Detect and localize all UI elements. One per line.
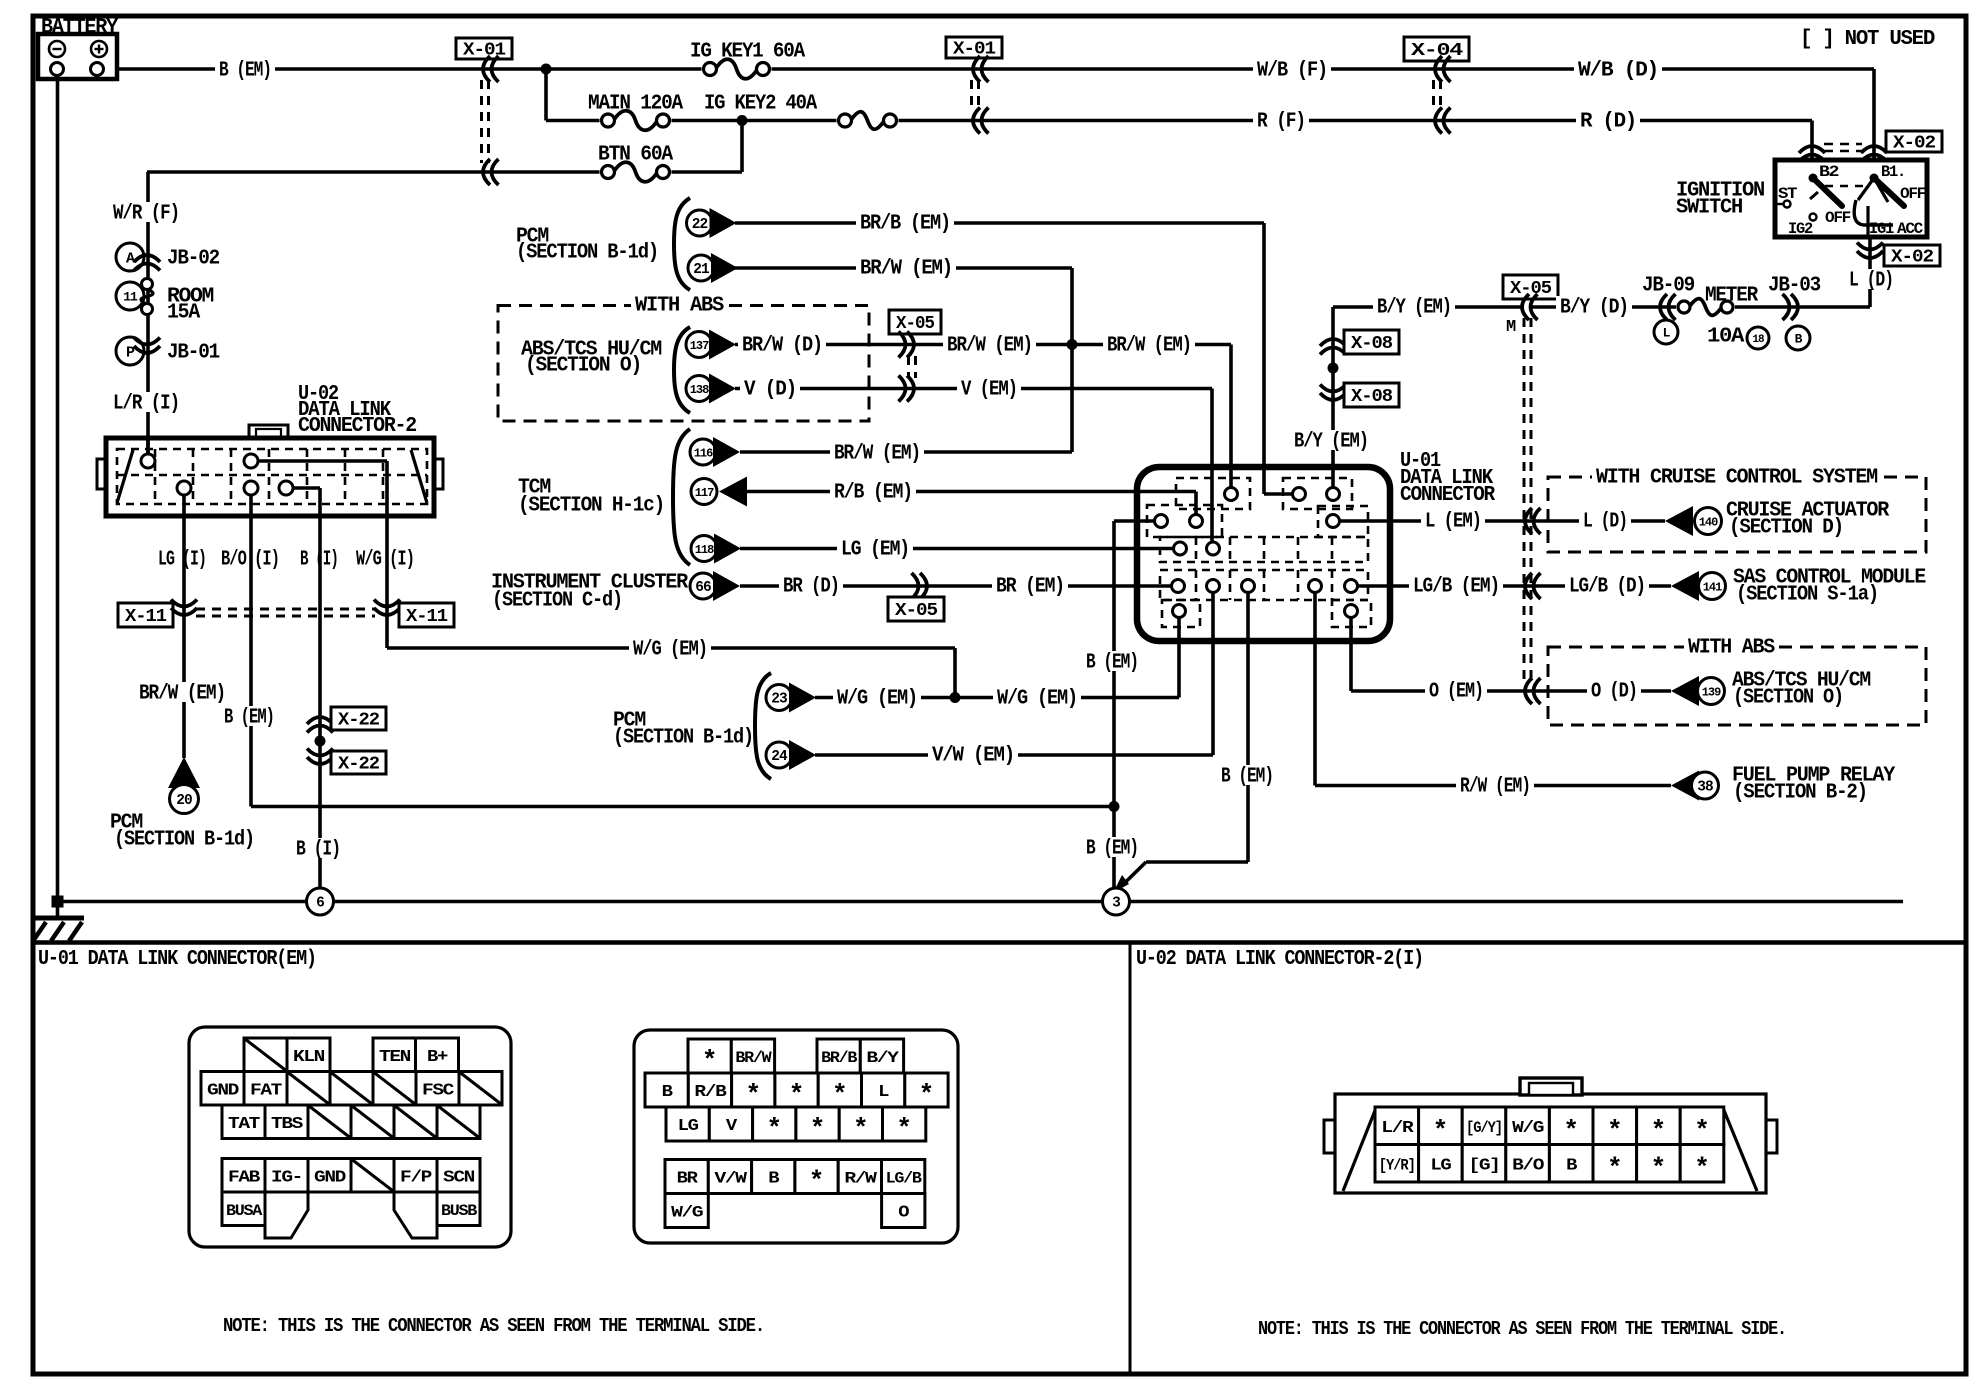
svg-text:B: B	[1566, 1156, 1577, 1175]
svg-text:(SECTION B-1d): (SECTION B-1d)	[516, 242, 658, 265]
svg-text:U-01 DATA LINK CONNECTOR(EM): U-01 DATA LINK CONNECTOR(EM)	[38, 948, 316, 971]
svg-text:JB-02: JB-02	[167, 248, 220, 271]
svg-text:*: *	[1694, 1153, 1710, 1183]
svg-text:(SECTION B-1d): (SECTION B-1d)	[114, 829, 254, 852]
svg-text:66: 66	[695, 580, 711, 596]
svg-text:WITH CRUISE CONTROL SYSTEM: WITH CRUISE CONTROL SYSTEM	[1596, 467, 1878, 490]
svg-text:X-05: X-05	[1510, 279, 1551, 299]
svg-text:B (I): B (I)	[296, 839, 340, 862]
svg-text:X-05: X-05	[896, 314, 934, 334]
svg-text:OFF: OFF	[1900, 185, 1926, 203]
svg-text:3: 3	[1112, 896, 1120, 912]
svg-text:*: *	[853, 1114, 869, 1144]
svg-text:B/Y (D): B/Y (D)	[1560, 297, 1628, 320]
svg-text:B/O: B/O	[1512, 1156, 1544, 1175]
svg-text:B+: B+	[427, 1048, 448, 1067]
svg-text:*: *	[766, 1114, 782, 1144]
svg-text:W/G (EM): W/G (EM)	[837, 688, 917, 711]
svg-text:X-04: X-04	[1411, 41, 1464, 61]
svg-text:W/G: W/G	[671, 1204, 703, 1222]
svg-text:O: O	[898, 1204, 909, 1223]
svg-text:W/B (D): W/B (D)	[1578, 60, 1658, 83]
svg-text:CONNECTOR-2: CONNECTOR-2	[298, 415, 417, 438]
svg-text:TAT: TAT	[228, 1115, 260, 1134]
svg-text:V/W (EM): V/W (EM)	[932, 745, 1014, 768]
svg-text:KLN: KLN	[293, 1048, 325, 1067]
svg-text:LG (EM): LG (EM)	[841, 539, 909, 562]
svg-text:18: 18	[1752, 334, 1765, 346]
svg-text:LG/B: LG/B	[886, 1170, 922, 1188]
svg-text:(SECTION O): (SECTION O)	[525, 355, 641, 378]
svg-text:OFF: OFF	[1825, 209, 1851, 227]
svg-text:L (D): L (D)	[1583, 511, 1627, 534]
svg-text:X-22: X-22	[338, 755, 379, 775]
svg-text:B: B	[1795, 332, 1803, 347]
svg-text:TEN: TEN	[379, 1048, 411, 1067]
svg-text:139: 139	[1702, 685, 1721, 699]
svg-text:B (EM): B (EM)	[1221, 766, 1273, 789]
svg-text:BR (D): BR (D)	[783, 576, 839, 599]
svg-text:*: *	[1651, 1153, 1667, 1183]
svg-text:BR/B: BR/B	[821, 1049, 857, 1067]
svg-text:BR: BR	[677, 1170, 699, 1189]
svg-text:*: *	[1563, 1116, 1579, 1146]
svg-text:WITH ABS: WITH ABS	[1688, 637, 1775, 660]
svg-text:38: 38	[1697, 780, 1713, 796]
svg-text:(SECTION S-1a): (SECTION S-1a)	[1736, 584, 1878, 607]
svg-text:B: B	[768, 1170, 779, 1189]
svg-text:22: 22	[692, 217, 708, 233]
svg-text:NOTE: THIS IS THE CONNECTOR AS: NOTE: THIS IS THE CONNECTOR AS SEEN FROM…	[1258, 1318, 1786, 1340]
svg-text:[Y/R]: [Y/R]	[1379, 1156, 1415, 1174]
svg-text:LG/B (D): LG/B (D)	[1569, 576, 1645, 599]
svg-text:W/G (EM): W/G (EM)	[997, 688, 1077, 711]
svg-text:B/Y (EM): B/Y (EM)	[1294, 431, 1368, 454]
svg-text:*: *	[1651, 1116, 1667, 1146]
svg-text:[G/Y]: [G/Y]	[1466, 1119, 1502, 1137]
svg-text:X-02: X-02	[1891, 248, 1933, 268]
svg-text:FSC: FSC	[422, 1081, 454, 1100]
svg-text:FAB: FAB	[228, 1168, 260, 1187]
svg-text:W/R (F): W/R (F)	[113, 203, 179, 226]
svg-text:F/P: F/P	[400, 1168, 432, 1187]
svg-text:B2: B2	[1819, 163, 1839, 181]
svg-text:X-22: X-22	[338, 711, 379, 731]
svg-text:*: *	[1607, 1153, 1623, 1183]
svg-text:L: L	[1663, 326, 1671, 341]
svg-text:138: 138	[690, 383, 709, 397]
svg-text:B (EM): B (EM)	[219, 60, 271, 83]
svg-text:6: 6	[316, 896, 324, 912]
svg-text:10A: 10A	[1707, 326, 1745, 349]
svg-text:W/B (F): W/B (F)	[1257, 60, 1327, 83]
svg-text:BR/W (EM): BR/W (EM)	[139, 683, 225, 706]
svg-text:141: 141	[1703, 580, 1722, 594]
svg-text:BTN 60A: BTN 60A	[598, 144, 674, 167]
svg-text:R (F): R (F)	[1257, 111, 1305, 134]
svg-text:R (D): R (D)	[1580, 111, 1636, 134]
svg-text:V (EM): V (EM)	[961, 379, 1017, 402]
svg-text:B1.: B1.	[1881, 163, 1905, 181]
svg-text:LG (I): LG (I)	[158, 549, 206, 572]
svg-text:BR/W (EM): BR/W (EM)	[947, 335, 1032, 358]
svg-text:MAIN 120A: MAIN 120A	[588, 93, 684, 116]
svg-text:*: *	[1433, 1116, 1449, 1146]
svg-text:(SECTION H-1c): (SECTION H-1c)	[518, 495, 664, 518]
svg-text:15A: 15A	[167, 302, 201, 325]
svg-text:JB-09: JB-09	[1642, 275, 1695, 298]
svg-text:W/G (EM): W/G (EM)	[633, 639, 707, 662]
svg-text:*: *	[1607, 1116, 1623, 1146]
svg-text:[G]: [G]	[1469, 1156, 1500, 1175]
svg-text:FAT: FAT	[250, 1081, 282, 1100]
svg-text:X-11: X-11	[406, 607, 448, 627]
svg-text:JB-03: JB-03	[1768, 275, 1821, 298]
svg-text:*: *	[896, 1114, 912, 1144]
svg-text:B (EM): B (EM)	[1086, 652, 1138, 675]
svg-text:ACC: ACC	[1897, 220, 1924, 238]
svg-text:NOTE: THIS IS THE CONNECTOR AS: NOTE: THIS IS THE CONNECTOR AS SEEN FROM…	[223, 1315, 764, 1337]
svg-text:[ ] NOT USED: [ ] NOT USED	[1800, 28, 1935, 51]
svg-text:BR (EM): BR (EM)	[996, 576, 1064, 599]
svg-text:R/W: R/W	[844, 1170, 877, 1188]
svg-text:137: 137	[690, 339, 709, 353]
svg-text:LG/B (EM): LG/B (EM)	[1413, 576, 1499, 599]
svg-text:IG KEY2 40A: IG KEY2 40A	[704, 93, 818, 116]
svg-text:W/G (I): W/G (I)	[356, 549, 414, 572]
svg-text:20: 20	[176, 793, 192, 809]
svg-text:LG: LG	[678, 1117, 699, 1136]
svg-text:BR/W (EM): BR/W (EM)	[860, 258, 952, 281]
svg-text:(SECTION O): (SECTION O)	[1733, 687, 1843, 710]
svg-text:(SECTION B-2): (SECTION B-2)	[1733, 782, 1867, 805]
svg-text:BR/B (EM): BR/B (EM)	[860, 213, 950, 236]
svg-text:GND: GND	[314, 1168, 346, 1187]
svg-text:23: 23	[771, 692, 787, 708]
svg-text:X-01: X-01	[463, 41, 506, 61]
svg-text:W/G: W/G	[1512, 1119, 1544, 1138]
svg-text:116: 116	[694, 446, 713, 460]
svg-text:L: L	[878, 1083, 889, 1102]
svg-text:V (D): V (D)	[744, 379, 796, 402]
svg-text:*: *	[810, 1114, 826, 1144]
svg-text:B/O (I): B/O (I)	[221, 549, 279, 572]
svg-text:(SECTION B-1d): (SECTION B-1d)	[613, 727, 753, 750]
svg-text:117: 117	[695, 486, 714, 500]
svg-text:B/Y: B/Y	[866, 1049, 899, 1067]
svg-text:IG2: IG2	[1788, 220, 1813, 238]
svg-text:L/R (I): L/R (I)	[113, 393, 179, 416]
svg-text:X-01: X-01	[953, 40, 996, 60]
svg-text:X-11: X-11	[125, 607, 167, 627]
svg-text:B (EM): B (EM)	[224, 707, 274, 730]
svg-text:24: 24	[771, 749, 788, 765]
svg-text:R/B: R/B	[694, 1083, 726, 1102]
svg-text:B (EM): B (EM)	[1086, 838, 1138, 861]
svg-text:(SECTION D): (SECTION D)	[1729, 517, 1843, 540]
svg-text:LG: LG	[1430, 1156, 1451, 1175]
svg-text:IG-: IG-	[271, 1168, 302, 1187]
svg-text:BR/W (EM): BR/W (EM)	[834, 443, 920, 466]
svg-text:O (D): O (D)	[1591, 681, 1637, 704]
svg-text:140: 140	[1699, 515, 1718, 529]
svg-text:CONNECTOR: CONNECTOR	[1400, 484, 1496, 507]
svg-text:X-08: X-08	[1351, 387, 1392, 407]
svg-text:JB-01: JB-01	[167, 342, 220, 365]
svg-text:R/W (EM): R/W (EM)	[1460, 776, 1530, 799]
svg-text:U-02 DATA LINK CONNECTOR-2(I): U-02 DATA LINK CONNECTOR-2(I)	[1136, 948, 1423, 971]
svg-text:SWITCH: SWITCH	[1676, 197, 1743, 220]
svg-text:IG1: IG1	[1869, 220, 1894, 238]
svg-text:B/Y (EM): B/Y (EM)	[1377, 297, 1451, 320]
svg-text:L (EM): L (EM)	[1425, 511, 1481, 534]
svg-text:L/R: L/R	[1381, 1119, 1414, 1138]
svg-text:A: A	[126, 250, 135, 267]
svg-text:BR/W: BR/W	[735, 1049, 772, 1067]
svg-text:*: *	[809, 1167, 825, 1197]
svg-text:*: *	[1694, 1116, 1710, 1146]
svg-text:L (D): L (D)	[1849, 270, 1893, 293]
svg-text:118: 118	[695, 543, 714, 557]
svg-text:BUSA: BUSA	[226, 1202, 263, 1220]
svg-text:V/W: V/W	[714, 1170, 747, 1188]
svg-text:X-05: X-05	[895, 601, 937, 621]
svg-text:B: B	[662, 1083, 673, 1102]
svg-text:X-02: X-02	[1893, 134, 1935, 154]
svg-text:11: 11	[123, 290, 138, 305]
svg-text:TBS: TBS	[271, 1115, 303, 1134]
svg-text:21: 21	[693, 262, 710, 278]
svg-text:SCN: SCN	[443, 1168, 475, 1187]
svg-text:BUSB: BUSB	[441, 1202, 477, 1220]
svg-text:R/B (EM): R/B (EM)	[834, 482, 912, 505]
svg-text:BR/W (D): BR/W (D)	[742, 335, 822, 358]
svg-text:GND: GND	[207, 1081, 239, 1100]
svg-text:O (EM): O (EM)	[1429, 681, 1483, 704]
svg-text:B (I): B (I)	[300, 549, 338, 572]
svg-text:(SECTION C-d): (SECTION C-d)	[492, 590, 622, 613]
svg-text:IG KEY1 60A: IG KEY1 60A	[690, 41, 806, 64]
svg-text:WITH ABS: WITH ABS	[635, 295, 724, 318]
svg-text:X-08: X-08	[1351, 334, 1392, 354]
svg-text:BR/W (EM): BR/W (EM)	[1107, 335, 1191, 358]
svg-text:M: M	[1506, 318, 1516, 337]
